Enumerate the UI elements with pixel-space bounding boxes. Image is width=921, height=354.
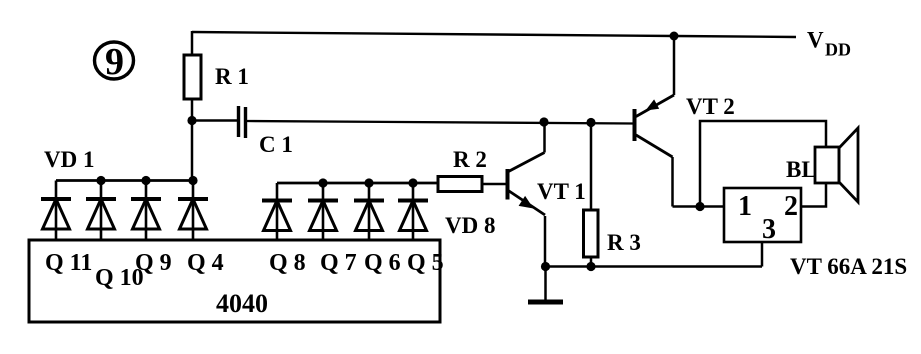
svg-text:R 2: R 2 — [453, 147, 487, 172]
bottom wire (ground node to pin 3) — [546, 265, 763, 268]
node on right bus (diode 8) — [408, 178, 417, 187]
svg-text:VT 2: VT 2 — [686, 94, 735, 119]
svg-text:R 1: R 1 — [215, 64, 249, 89]
svg-text:3: 3 — [762, 214, 776, 245]
node: VT2 collector / speaker-loop junction — [695, 202, 704, 211]
resistor R1 — [184, 31, 201, 121]
label VDD — [807, 28, 851, 60]
node: VDD / VT2 emitter junction — [670, 32, 679, 41]
svg-text:R 3: R 3 — [607, 230, 641, 255]
svg-text:BL: BL — [786, 157, 817, 182]
diode VD4 (Q4 output) — [178, 181, 208, 241]
svg-text:V: V — [807, 28, 824, 53]
svg-text:Q 4: Q 4 — [187, 250, 224, 276]
figure number 9 (circled) — [95, 41, 134, 83]
diode VD7 (Q6 output) — [354, 183, 384, 240]
svg-text:4040: 4040 — [216, 289, 268, 318]
capacitor C1 — [192, 106, 246, 138]
resistor R3 — [584, 123, 599, 267]
svg-text:1: 1 — [738, 191, 752, 222]
wire: junction up and over to speaker top — [700, 121, 826, 207]
node on left bus (diode 2) — [96, 176, 105, 185]
wire: pin 1 of melody IC — [700, 205, 724, 208]
node on left bus (diode 3) — [141, 176, 150, 185]
wire: R2 to VT1 base — [482, 183, 507, 185]
svg-text:Q 8: Q 8 — [269, 250, 306, 276]
wire: VT1 emitter down to ground node — [544, 216, 547, 267]
diode VD6 (Q7 output) — [308, 183, 338, 240]
IC box 4040 — [29, 240, 440, 322]
svg-text:DD: DD — [825, 40, 851, 60]
wire: junction down to left diode bus — [191, 121, 194, 181]
node: VT1 collector junction on long wire — [539, 117, 548, 126]
svg-text:Q 6: Q 6 — [364, 250, 401, 276]
right diode bus wire (to R2) — [277, 182, 438, 185]
wire: C1 to VT2 base (long horizontal) — [247, 121, 633, 124]
left diode bus wire — [56, 179, 193, 182]
svg-text:C 1: C 1 — [259, 132, 293, 157]
node: R3 bottom junction — [586, 262, 595, 271]
svg-text:VD 1: VD 1 — [44, 147, 94, 172]
VDD rail wire — [192, 32, 796, 37]
svg-text:Q 5: Q 5 — [407, 250, 444, 276]
wire: speaker bottom to pin 2 — [801, 183, 826, 207]
node on right bus (diode 7) — [364, 178, 373, 187]
diode VD2 (Q10 output) — [86, 181, 116, 241]
node: R3 top junction on long wire — [586, 118, 595, 127]
svg-text:VT 66A 21S: VT 66A 21S — [790, 254, 907, 279]
diode VD3 (Q9 output) — [131, 181, 161, 241]
diode VD1 (Q11 output) — [41, 181, 71, 241]
svg-text:VD 8: VD 8 — [445, 213, 495, 238]
diode VD5 (Q8 output) — [262, 183, 292, 240]
node on right bus (diode 6) — [318, 178, 327, 187]
svg-text:Q 7: Q 7 — [320, 250, 357, 276]
svg-text:VT 1: VT 1 — [537, 179, 586, 204]
speaker BL — [815, 128, 858, 202]
node on left bus (diode 4) — [188, 176, 197, 185]
transistor VT1 (NPN) — [508, 121, 546, 215]
svg-text:Q 11: Q 11 — [45, 250, 92, 276]
svg-text:Q 9: Q 9 — [135, 250, 172, 276]
svg-text:9: 9 — [105, 41, 124, 83]
node: emitter / ground / bottom-wire junction — [541, 262, 550, 271]
resistor R2 — [438, 177, 482, 192]
wire: pin 3 drop — [761, 242, 764, 267]
diode VD8 (Q5 output) — [398, 183, 428, 240]
node: R1 / C1 / diode-bus junction — [187, 116, 196, 125]
melody IC box VT66A21S — [724, 188, 801, 242]
svg-text:2: 2 — [784, 191, 798, 222]
ground — [528, 267, 563, 303]
transistor VT2 (PNP) — [635, 36, 701, 207]
